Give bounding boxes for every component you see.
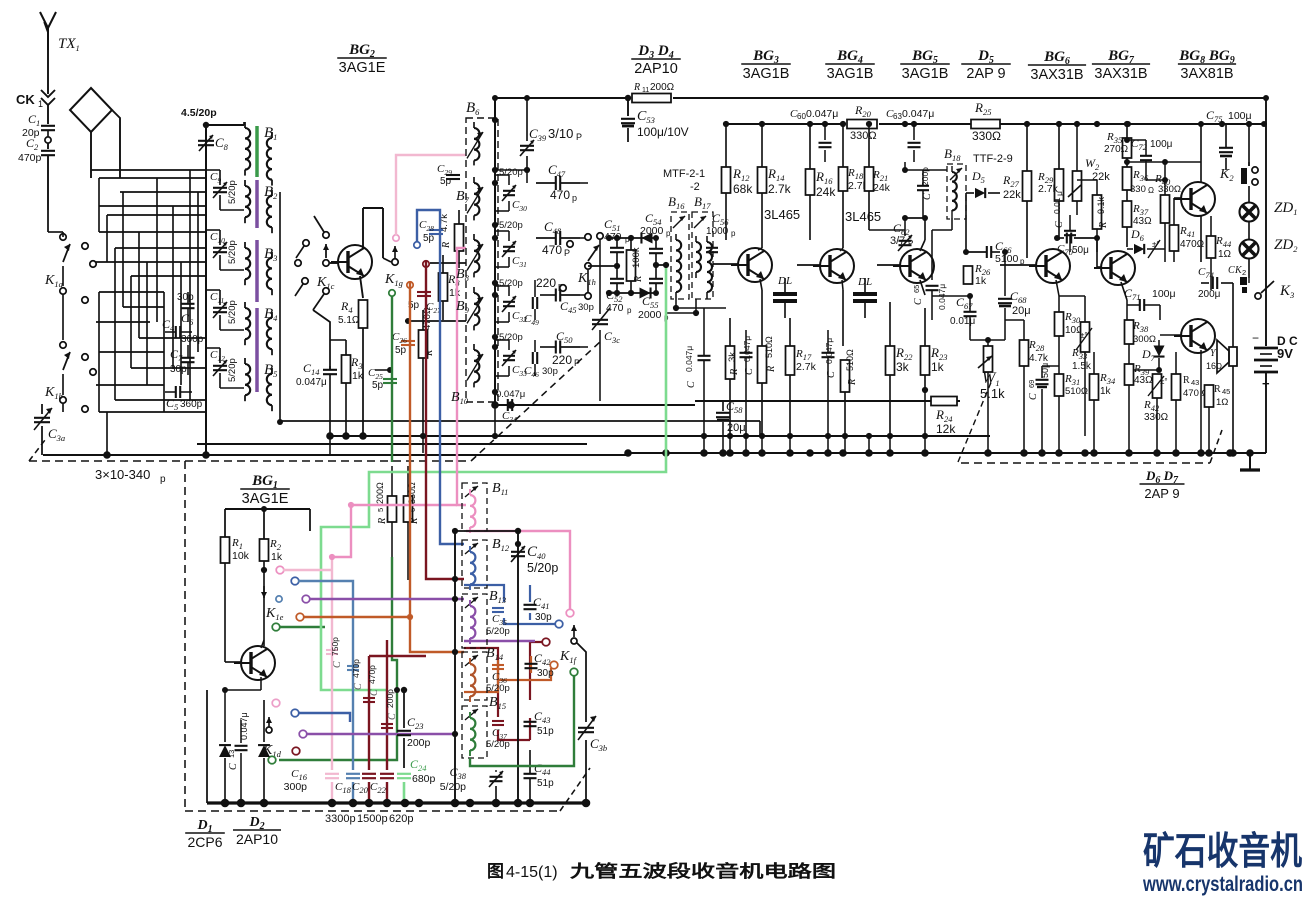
svg-text:470p: 470p (367, 665, 377, 684)
transformer B1 primary (245, 122, 250, 176)
capacitor C8 4.5/20p (181, 107, 229, 152)
thermistor R42 (1143, 374, 1169, 453)
svg-text:330Ω: 330Ω (1158, 184, 1181, 195)
label tap 340 (499, 332, 523, 343)
capacitor C49 (524, 297, 539, 327)
wire main column (205, 125, 207, 455)
svg-text:3AG1E: 3AG1E (242, 491, 289, 507)
capacitor C75 (1206, 108, 1252, 170)
wire osc column main (452, 528, 521, 803)
capacitor C74 (1198, 266, 1221, 300)
svg-text:3AG1E: 3AG1E (339, 60, 386, 76)
svg-text:470: 470 (542, 243, 562, 257)
svg-text:R: R (766, 366, 777, 373)
wire antenna down (47, 156, 49, 210)
label 3L465 a (764, 207, 800, 222)
wire coil bank links (203, 122, 760, 458)
svg-text:C: C (332, 661, 343, 668)
svg-text:5/20p: 5/20p (499, 278, 523, 289)
svg-text:1Ω: 1Ω (1216, 397, 1228, 408)
svg-text:图: 图 (487, 862, 504, 881)
logo crystalradio (1142, 831, 1303, 896)
label BG4 type (825, 48, 875, 82)
svg-text:16: 16 (1206, 361, 1216, 371)
capacitor C31 (495, 231, 527, 269)
wire maroon tap (423, 261, 429, 462)
transformer B11 box (462, 483, 487, 531)
svg-text:510Ω: 510Ω (845, 349, 855, 371)
svg-text:MTF-2-1: MTF-2-1 (663, 168, 705, 180)
ceramic filter DL2 (853, 276, 877, 318)
resistor R1 (221, 537, 250, 648)
switch K3 (1249, 160, 1294, 300)
svg-text:2000: 2000 (638, 309, 662, 321)
transformer B15 coil (470, 712, 475, 756)
resistor R4 (338, 299, 368, 436)
label K1a (44, 273, 63, 289)
wire maroon bottom (369, 462, 550, 803)
wire ground bus (43, 453, 1266, 455)
label tap 228 (499, 220, 523, 231)
label BG8 BG9 type (1178, 48, 1236, 82)
capacitor C57 (684, 308, 711, 436)
transformer B6 box (466, 100, 498, 402)
label 3L465 b (845, 209, 881, 224)
svg-text:620p: 620p (389, 813, 413, 825)
capacitor C32 (495, 286, 527, 324)
svg-text:30p: 30p (542, 366, 558, 377)
diode D5 (966, 169, 1000, 198)
resistor R14 (758, 166, 792, 248)
capacitor C53 (621, 95, 689, 142)
svg-text:0.047μ: 0.047μ (296, 377, 327, 388)
svg-text:5p: 5p (440, 176, 452, 187)
wire green tap (389, 290, 395, 462)
capacitor C28 (419, 219, 443, 244)
wire BG8 collector up (1125, 121, 1267, 162)
resistor R16 (806, 124, 837, 240)
capacitor C71b (1124, 286, 1176, 320)
capacitor C64 (917, 167, 933, 218)
label B14 (486, 646, 504, 662)
resistor R31 (1055, 373, 1088, 453)
jack CK1 (16, 50, 55, 109)
label 3300p etc (325, 813, 413, 825)
capacitor C3a (34, 404, 65, 455)
svg-text:1k: 1k (975, 275, 987, 287)
transformer B6 winding 4 (467, 287, 483, 330)
capacitor C42 (525, 651, 555, 679)
svg-text:470: 470 (606, 302, 624, 314)
svg-text:100μ: 100μ (1228, 110, 1252, 122)
svg-text:470p: 470p (351, 659, 361, 678)
svg-text:−: − (1252, 331, 1259, 345)
svg-text:330Ω: 330Ω (850, 130, 877, 142)
svg-text:0.047μ: 0.047μ (806, 108, 838, 120)
wire orange tap (407, 282, 413, 462)
svg-text:3300p: 3300p (325, 813, 356, 825)
svg-text:2AP10: 2AP10 (634, 61, 678, 77)
svg-text:0.047μ: 0.047μ (937, 284, 947, 310)
transformer B4 secondary (267, 312, 272, 355)
capacitor C9 (206, 170, 244, 210)
osc bus dots (221, 799, 591, 808)
svg-text:100μ/10V: 100μ/10V (637, 125, 689, 139)
svg-text:3AX31B: 3AX31B (1094, 66, 1147, 82)
svg-text:5: 5 (376, 508, 385, 512)
resistor R43 (1172, 352, 1209, 453)
svg-text:3×10-340: 3×10-340 (95, 467, 150, 482)
svg-text:10k: 10k (232, 550, 250, 562)
svg-text:1k: 1k (352, 370, 364, 382)
svg-text:100μ: 100μ (1152, 288, 1176, 300)
diode D7 (1129, 340, 1165, 373)
wire BG1 conn (222, 640, 264, 720)
svg-text:5100: 5100 (995, 253, 1019, 265)
svg-text:470: 470 (550, 188, 570, 202)
label B1 (264, 125, 277, 142)
tuning gang dash line (29, 340, 602, 808)
svg-text:P: P (574, 358, 580, 368)
resistor R15 (758, 336, 778, 436)
capacitor C5 (165, 386, 203, 412)
bus junction dots (103, 401, 1254, 459)
switch K1a (60, 234, 96, 303)
svg-text:R: R (441, 242, 452, 249)
antenna TX1 (40, 12, 56, 50)
wire BG5 base (877, 264, 900, 266)
svg-text:50μ: 50μ (1072, 245, 1089, 256)
label tap 286 (499, 278, 523, 289)
mid rail dots (360, 433, 928, 439)
svg-text:5/20p: 5/20p (499, 332, 523, 343)
label B2 (264, 184, 278, 201)
resistor R28 (1005, 320, 1049, 453)
svg-text:C: C (353, 683, 364, 690)
wire BG1 frame (225, 506, 310, 539)
svg-text:R: R (633, 276, 644, 283)
resistor R32 (1077, 180, 1109, 252)
svg-text:CK: CK (16, 92, 35, 107)
transistor BG7 (1094, 251, 1135, 285)
transformer B4 primary (245, 302, 250, 345)
wire BG2 collector (363, 208, 391, 262)
caption (487, 861, 836, 881)
wire BG3 base (737, 263, 739, 265)
svg-text:0.047μ: 0.047μ (684, 346, 694, 372)
label B9 (456, 299, 470, 315)
svg-text:1k: 1k (449, 287, 461, 299)
svg-text:Ω: Ω (1148, 186, 1154, 195)
svg-text:3/10: 3/10 (548, 126, 573, 141)
resistor R29 (1037, 124, 1064, 240)
svg-text:2000: 2000 (640, 225, 664, 237)
wire bottom links (277, 419, 666, 531)
resistor R8 (439, 255, 461, 320)
svg-text:5/20p: 5/20p (499, 167, 523, 178)
svg-text:0.047μ: 0.047μ (239, 712, 249, 740)
svg-text:1.5k: 1.5k (1072, 361, 1092, 372)
svg-text:0.047μ: 0.047μ (902, 108, 934, 120)
resistor R3 (330, 340, 364, 436)
svg-text:50μ: 50μ (1040, 363, 1050, 378)
resistor R27 (1002, 124, 1032, 258)
label B8 (456, 267, 470, 283)
label B4 (264, 306, 278, 323)
transformer B13 box (462, 594, 487, 648)
resistor R2 (260, 538, 283, 646)
svg-text:330: 330 (1130, 184, 1146, 195)
wire AGC dash (958, 380, 992, 462)
jack CK2 (1228, 265, 1247, 293)
transformer B14 box (462, 652, 487, 700)
wire B6 column (492, 98, 498, 405)
capacitor C35 (486, 608, 510, 637)
wire B18 net (869, 162, 952, 280)
capacitor C62 (890, 218, 913, 251)
wire BG9 links (1160, 262, 1201, 453)
svg-text:5.1k: 5.1k (980, 386, 1005, 401)
capacitor C17 (347, 659, 364, 690)
svg-text:9.1k: 9.1k (1096, 196, 1106, 214)
svg-text:1k: 1k (1100, 386, 1112, 397)
svg-text:p: p (666, 229, 671, 238)
capacitor C7 (170, 345, 195, 375)
svg-text:5p: 5p (372, 380, 384, 391)
svg-text:0.047μ: 0.047μ (824, 338, 834, 364)
wire BG7 links (1097, 238, 1127, 320)
diode D2 (258, 700, 270, 803)
svg-text:3L465: 3L465 (764, 207, 800, 222)
capacitor C23 (397, 687, 431, 768)
svg-text:20μ: 20μ (1012, 305, 1031, 317)
capacitor C70 (1054, 233, 1100, 258)
wire K3 net (1232, 278, 1249, 283)
svg-text:200p: 200p (385, 689, 395, 708)
label B7 (456, 189, 470, 205)
transistor BG2 (331, 245, 372, 279)
battery DC9V (1252, 331, 1298, 391)
resistor R7 (419, 307, 436, 436)
capacitor C3c (592, 233, 620, 401)
svg-text:9V: 9V (1277, 346, 1293, 361)
svg-text:30p: 30p (537, 668, 554, 679)
wire pink main (457, 248, 466, 462)
wire K1f to C3b (577, 643, 586, 803)
label BG5 type (900, 48, 950, 82)
svg-text:5.1Ω: 5.1Ω (338, 315, 360, 326)
svg-text:22k: 22k (1003, 189, 1021, 201)
switch K1f (559, 625, 578, 676)
svg-text:200Ω: 200Ω (650, 82, 675, 93)
svg-text:2.7k: 2.7k (768, 182, 792, 196)
wire right edge (1265, 98, 1267, 453)
wire BG2 base (330, 262, 338, 264)
transformer B17 coil2 (707, 236, 712, 299)
wire BG5 collector (920, 218, 925, 251)
wire purple bottom (306, 599, 535, 734)
resistor R34 (1090, 352, 1116, 453)
label K1b (44, 385, 63, 401)
capacitor C45 (536, 276, 594, 315)
capacitor C48 (536, 219, 580, 258)
wire B10 bottom rail (495, 404, 695, 406)
core bar green (255, 126, 259, 177)
svg-text:3AX31B: 3AX31B (1030, 67, 1083, 83)
svg-text:R: R (633, 82, 640, 93)
transformer B11 coil (470, 489, 475, 533)
node antenna tap (45, 131, 51, 143)
capacitor C40 (511, 544, 558, 575)
transformer B2 primary (245, 180, 250, 223)
capacitor C33 (495, 340, 527, 378)
svg-text:3AX81B: 3AX81B (1180, 66, 1233, 82)
core bar purple3 (255, 308, 259, 392)
svg-text:11: 11 (642, 87, 649, 94)
wire B9 tap (405, 318, 466, 324)
svg-text:2: 2 (1242, 268, 1246, 277)
loop antenna (70, 88, 120, 178)
resistor R17 (786, 318, 817, 436)
capacitor C12 (206, 348, 244, 388)
svg-text:65: 65 (912, 285, 921, 293)
label BG1 type (240, 473, 290, 507)
potentiometer W1 (970, 337, 1005, 401)
capacitor C66 (963, 193, 1025, 266)
D6 D7 dash box (961, 430, 1222, 463)
svg-text:2.7k: 2.7k (796, 361, 817, 373)
transformer B15 box (462, 706, 487, 758)
svg-text:45: 45 (1222, 387, 1230, 396)
svg-text:51p: 51p (537, 778, 554, 789)
resistor R40 (1154, 159, 1181, 262)
wire steelblue bottom (298, 581, 353, 803)
transformer B17 coil1 (696, 236, 701, 278)
node det mid (653, 262, 665, 268)
label B12 (492, 537, 510, 553)
capacitor C14 (296, 361, 337, 436)
capacitor C67 (932, 293, 977, 340)
transformer B6 winding 2 (467, 177, 483, 220)
svg-text:24k: 24k (816, 185, 836, 199)
svg-text:R: R (1214, 384, 1221, 395)
transistor BG4 (813, 249, 854, 283)
svg-text:BG8 BG9: BG8 BG9 (1178, 48, 1234, 66)
capacitor C27 (408, 292, 441, 315)
switch K1g (384, 246, 403, 288)
svg-text:0.01: 0.01 (1052, 197, 1062, 214)
transformer B2 secondary (267, 190, 272, 233)
wire band switch mesh (91, 170, 206, 455)
svg-text:5/20p: 5/20p (486, 683, 510, 694)
diode D6 (1127, 227, 1165, 258)
potentiometer W2 (1068, 124, 1110, 215)
label D1 type (185, 818, 225, 850)
svg-text:200μ: 200μ (1198, 289, 1221, 300)
resistor R35 (1104, 124, 1132, 167)
capacitor C39 (520, 98, 582, 173)
transistor BG3 (731, 248, 772, 282)
wire BG5 emitter (920, 280, 925, 308)
resistor R30 (1055, 296, 1085, 374)
capacitor C44 (524, 750, 555, 803)
svg-text:24k: 24k (873, 182, 891, 194)
wire K column (48, 210, 63, 412)
transformer B1 secondary (267, 132, 272, 186)
svg-text:C: C (387, 713, 398, 720)
svg-text:330Ω: 330Ω (972, 129, 1001, 143)
svg-text:300p: 300p (284, 781, 308, 793)
wire out coupling (1201, 283, 1237, 457)
svg-text:5/20p: 5/20p (227, 180, 238, 204)
capacitor C34 (502, 399, 517, 424)
label BG2 type (337, 42, 387, 76)
rail drops to bus (330, 308, 988, 455)
transistor BG9 (1174, 319, 1215, 353)
svg-text:4.5/20p: 4.5/20p (181, 107, 217, 119)
svg-text:0.047μ: 0.047μ (496, 389, 525, 400)
svg-text:±°: ±° (1080, 331, 1088, 340)
svg-text:680p: 680p (412, 773, 436, 785)
svg-text:5p: 5p (395, 345, 407, 356)
wire K1c to C14 (313, 310, 330, 369)
transformer B6 winding 5 (467, 344, 483, 387)
wire B6 right links (495, 170, 588, 376)
capacitor C13 (227, 712, 249, 803)
label 0.047u B10 (496, 389, 525, 400)
svg-text:43: 43 (1191, 378, 1199, 387)
resistor R11 (632, 82, 675, 103)
wire green B15 out (470, 676, 574, 766)
svg-text:200Ω: 200Ω (375, 482, 385, 504)
label BG7 type (1092, 48, 1150, 82)
svg-text:p: p (160, 474, 166, 485)
resistor R12 (722, 166, 754, 240)
resistor R9 (439, 210, 464, 268)
transformer B13 coil (470, 600, 475, 644)
resistor R36 (1123, 167, 1155, 201)
wire BG8 net (1160, 162, 1201, 262)
transformer B17 box (692, 194, 713, 299)
capacitor C6 (177, 292, 195, 327)
label B15 (489, 695, 506, 711)
switch K2 (1219, 162, 1258, 185)
capacitor C50 (540, 329, 580, 368)
transformer B18 coil (952, 166, 957, 218)
svg-text:1500p: 1500p (357, 813, 388, 825)
switch K1h (560, 234, 599, 299)
wire B8 tap (430, 262, 466, 264)
capacitor C41 (524, 595, 553, 623)
svg-text:100k: 100k (631, 247, 642, 268)
capacitor C11 (206, 290, 244, 330)
svg-text:3/7: 3/7 (890, 235, 905, 247)
resistor R10 (627, 238, 645, 293)
svg-text:P: P (908, 239, 913, 248)
svg-text:2CP6: 2CP6 (187, 834, 222, 850)
capacitor C51 (604, 217, 630, 266)
svg-text:5/20p: 5/20p (499, 220, 523, 231)
svg-text:www.crystalradio.cn: www.crystalradio.cn (1142, 873, 1303, 896)
capacitor C56 (706, 211, 736, 252)
wire det input (588, 263, 620, 292)
svg-text:5/20p: 5/20p (227, 240, 238, 264)
svg-text:30p: 30p (170, 364, 187, 375)
transformer B12 coil (470, 546, 475, 590)
switch K1d (262, 699, 307, 764)
label B5 (264, 362, 277, 379)
wire B17 out (666, 264, 738, 316)
